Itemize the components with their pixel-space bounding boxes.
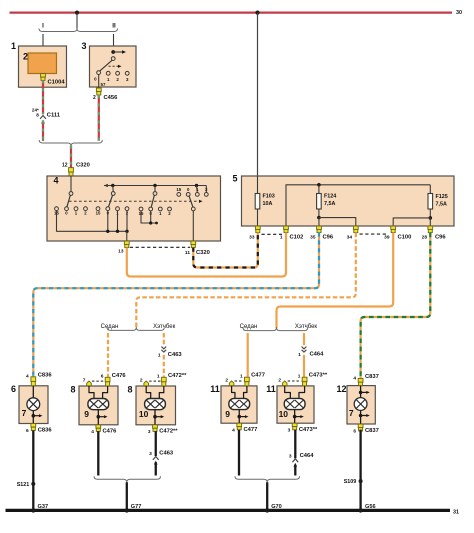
svg-text:6: 6	[26, 428, 29, 434]
svg-text:F103: F103	[263, 194, 275, 200]
svg-text:C836: C836	[38, 428, 53, 434]
svg-text:10: 10	[279, 409, 289, 419]
svg-text:15: 15	[96, 211, 101, 216]
svg-text:S121: S121	[17, 482, 30, 488]
svg-text:C473**: C473**	[299, 427, 318, 433]
svg-text:11: 11	[185, 250, 190, 256]
svg-text:C472**: C472**	[159, 429, 178, 435]
svg-text:C476: C476	[112, 373, 127, 379]
svg-text:12: 12	[336, 384, 346, 394]
svg-text:C320: C320	[76, 162, 90, 168]
svg-text:8: 8	[127, 384, 132, 394]
svg-text:7,5A: 7,5A	[324, 201, 335, 207]
svg-text:C476: C476	[103, 429, 118, 435]
svg-text:10A: 10A	[263, 201, 273, 207]
svg-text:C837: C837	[365, 428, 379, 434]
svg-text:7: 7	[22, 408, 27, 418]
svg-text:Хэтчбек: Хэтчбек	[295, 324, 318, 330]
svg-text:C463: C463	[168, 352, 183, 358]
svg-text:11: 11	[266, 384, 276, 394]
svg-text:4: 4	[353, 375, 356, 381]
svg-text:5: 5	[232, 174, 237, 184]
svg-text:2: 2	[93, 95, 96, 101]
svg-text:Хэтчбек: Хэтчбек	[153, 324, 176, 330]
svg-text:G37: G37	[38, 504, 49, 510]
svg-text:C96: C96	[323, 235, 334, 241]
svg-text:11: 11	[210, 384, 220, 394]
svg-text:1: 1	[11, 41, 16, 51]
svg-text:3: 3	[289, 454, 292, 460]
svg-text:Седан: Седан	[240, 324, 258, 330]
svg-text:II: II	[112, 22, 116, 29]
svg-text:39: 39	[384, 235, 390, 241]
svg-text:4: 4	[91, 429, 94, 435]
svg-text:3: 3	[288, 428, 291, 434]
svg-text:30: 30	[456, 10, 462, 16]
svg-text:C1004: C1004	[48, 79, 66, 85]
svg-text:C836: C836	[38, 372, 53, 378]
svg-text:C111: C111	[47, 113, 61, 119]
svg-text:3: 3	[81, 41, 86, 51]
svg-text:1: 1	[157, 373, 160, 379]
svg-text:28: 28	[422, 235, 428, 241]
svg-text:4: 4	[232, 428, 235, 434]
svg-text:1: 1	[298, 373, 301, 379]
svg-text:C100: C100	[398, 235, 412, 241]
svg-text:S109: S109	[344, 479, 357, 485]
svg-text:35: 35	[310, 235, 316, 241]
svg-text:C837: C837	[365, 374, 379, 380]
svg-text:8: 8	[70, 384, 75, 394]
svg-text:I: I	[42, 22, 44, 29]
svg-text:F124: F124	[324, 194, 336, 200]
svg-text:4: 4	[53, 176, 58, 186]
svg-text:4: 4	[26, 374, 29, 380]
svg-text:C464: C464	[300, 453, 315, 459]
svg-text:6: 6	[101, 373, 104, 379]
svg-text:6: 6	[353, 429, 356, 435]
svg-text:1: 1	[158, 352, 161, 358]
svg-text:31: 31	[453, 509, 459, 515]
svg-text:C477: C477	[251, 373, 265, 379]
svg-text:8: 8	[36, 113, 39, 118]
svg-text:7,5A: 7,5A	[436, 201, 447, 207]
svg-text:9: 9	[225, 409, 230, 419]
svg-text:1: 1	[280, 235, 283, 241]
svg-text:15: 15	[176, 187, 181, 192]
svg-text:9: 9	[84, 409, 89, 419]
svg-text:7: 7	[83, 377, 86, 383]
svg-text:C473**: C473**	[309, 373, 328, 379]
svg-text:C456: C456	[104, 95, 119, 101]
svg-text:C464: C464	[310, 352, 325, 358]
svg-text:34: 34	[347, 235, 353, 241]
svg-text:C96: C96	[435, 235, 446, 241]
svg-text:57: 57	[101, 82, 106, 87]
svg-text:2: 2	[278, 377, 281, 383]
svg-text:Седан: Седан	[101, 324, 119, 330]
svg-text:3: 3	[149, 451, 152, 457]
svg-text:7: 7	[349, 408, 354, 418]
svg-text:10: 10	[139, 409, 149, 419]
svg-text:12: 12	[62, 162, 68, 168]
svg-text:13: 13	[118, 248, 124, 254]
svg-text:3: 3	[148, 429, 151, 435]
svg-text:6: 6	[11, 384, 16, 394]
svg-text:2: 2	[23, 52, 28, 62]
svg-text:1: 1	[298, 352, 301, 358]
svg-text:C102: C102	[290, 235, 304, 241]
svg-text:C477: C477	[243, 427, 257, 433]
svg-text:G77: G77	[131, 504, 142, 510]
svg-text:2: 2	[140, 377, 143, 383]
svg-text:2: 2	[225, 377, 228, 383]
svg-text:G56: G56	[365, 504, 376, 510]
svg-text:C463: C463	[159, 451, 174, 457]
svg-text:F125: F125	[436, 194, 448, 200]
svg-text:G70: G70	[271, 504, 282, 510]
svg-text:1: 1	[240, 373, 243, 379]
svg-text:C472**: C472**	[168, 373, 187, 379]
svg-text:C320: C320	[196, 250, 210, 256]
svg-text:33: 33	[249, 235, 255, 241]
